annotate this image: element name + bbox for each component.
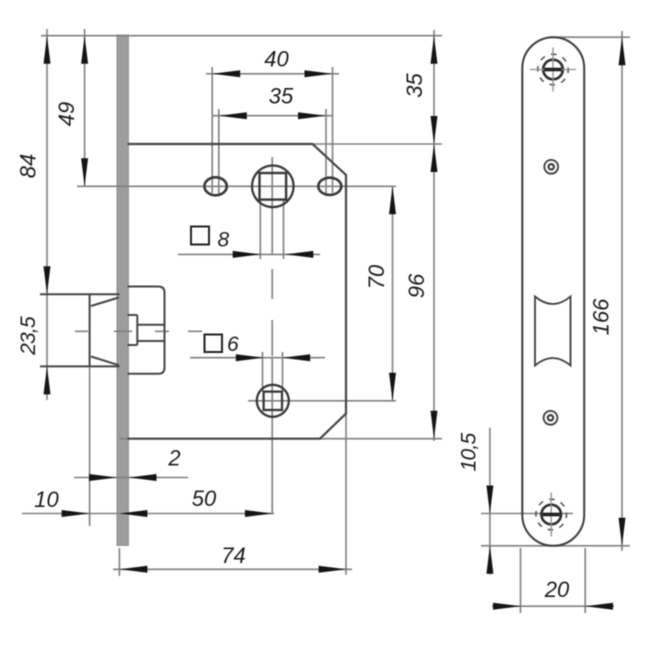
svg-text:96: 96: [404, 273, 429, 298]
svg-text:50: 50: [192, 486, 217, 511]
svg-text:84: 84: [16, 154, 41, 178]
svg-text:40: 40: [264, 47, 289, 72]
svg-text:10: 10: [34, 487, 59, 512]
svg-text:74: 74: [221, 543, 245, 568]
svg-text:49: 49: [54, 102, 79, 126]
svg-text:35: 35: [269, 84, 294, 109]
svg-text:6: 6: [227, 333, 239, 356]
svg-text:20: 20: [544, 577, 570, 602]
svg-text:23,5: 23,5: [17, 316, 40, 356]
svg-text:35: 35: [402, 73, 427, 98]
svg-text:70: 70: [364, 264, 389, 289]
svg-text:166: 166: [589, 298, 614, 335]
svg-text:10,5: 10,5: [458, 433, 481, 472]
svg-text:8: 8: [218, 229, 230, 252]
svg-text:2: 2: [167, 446, 180, 471]
